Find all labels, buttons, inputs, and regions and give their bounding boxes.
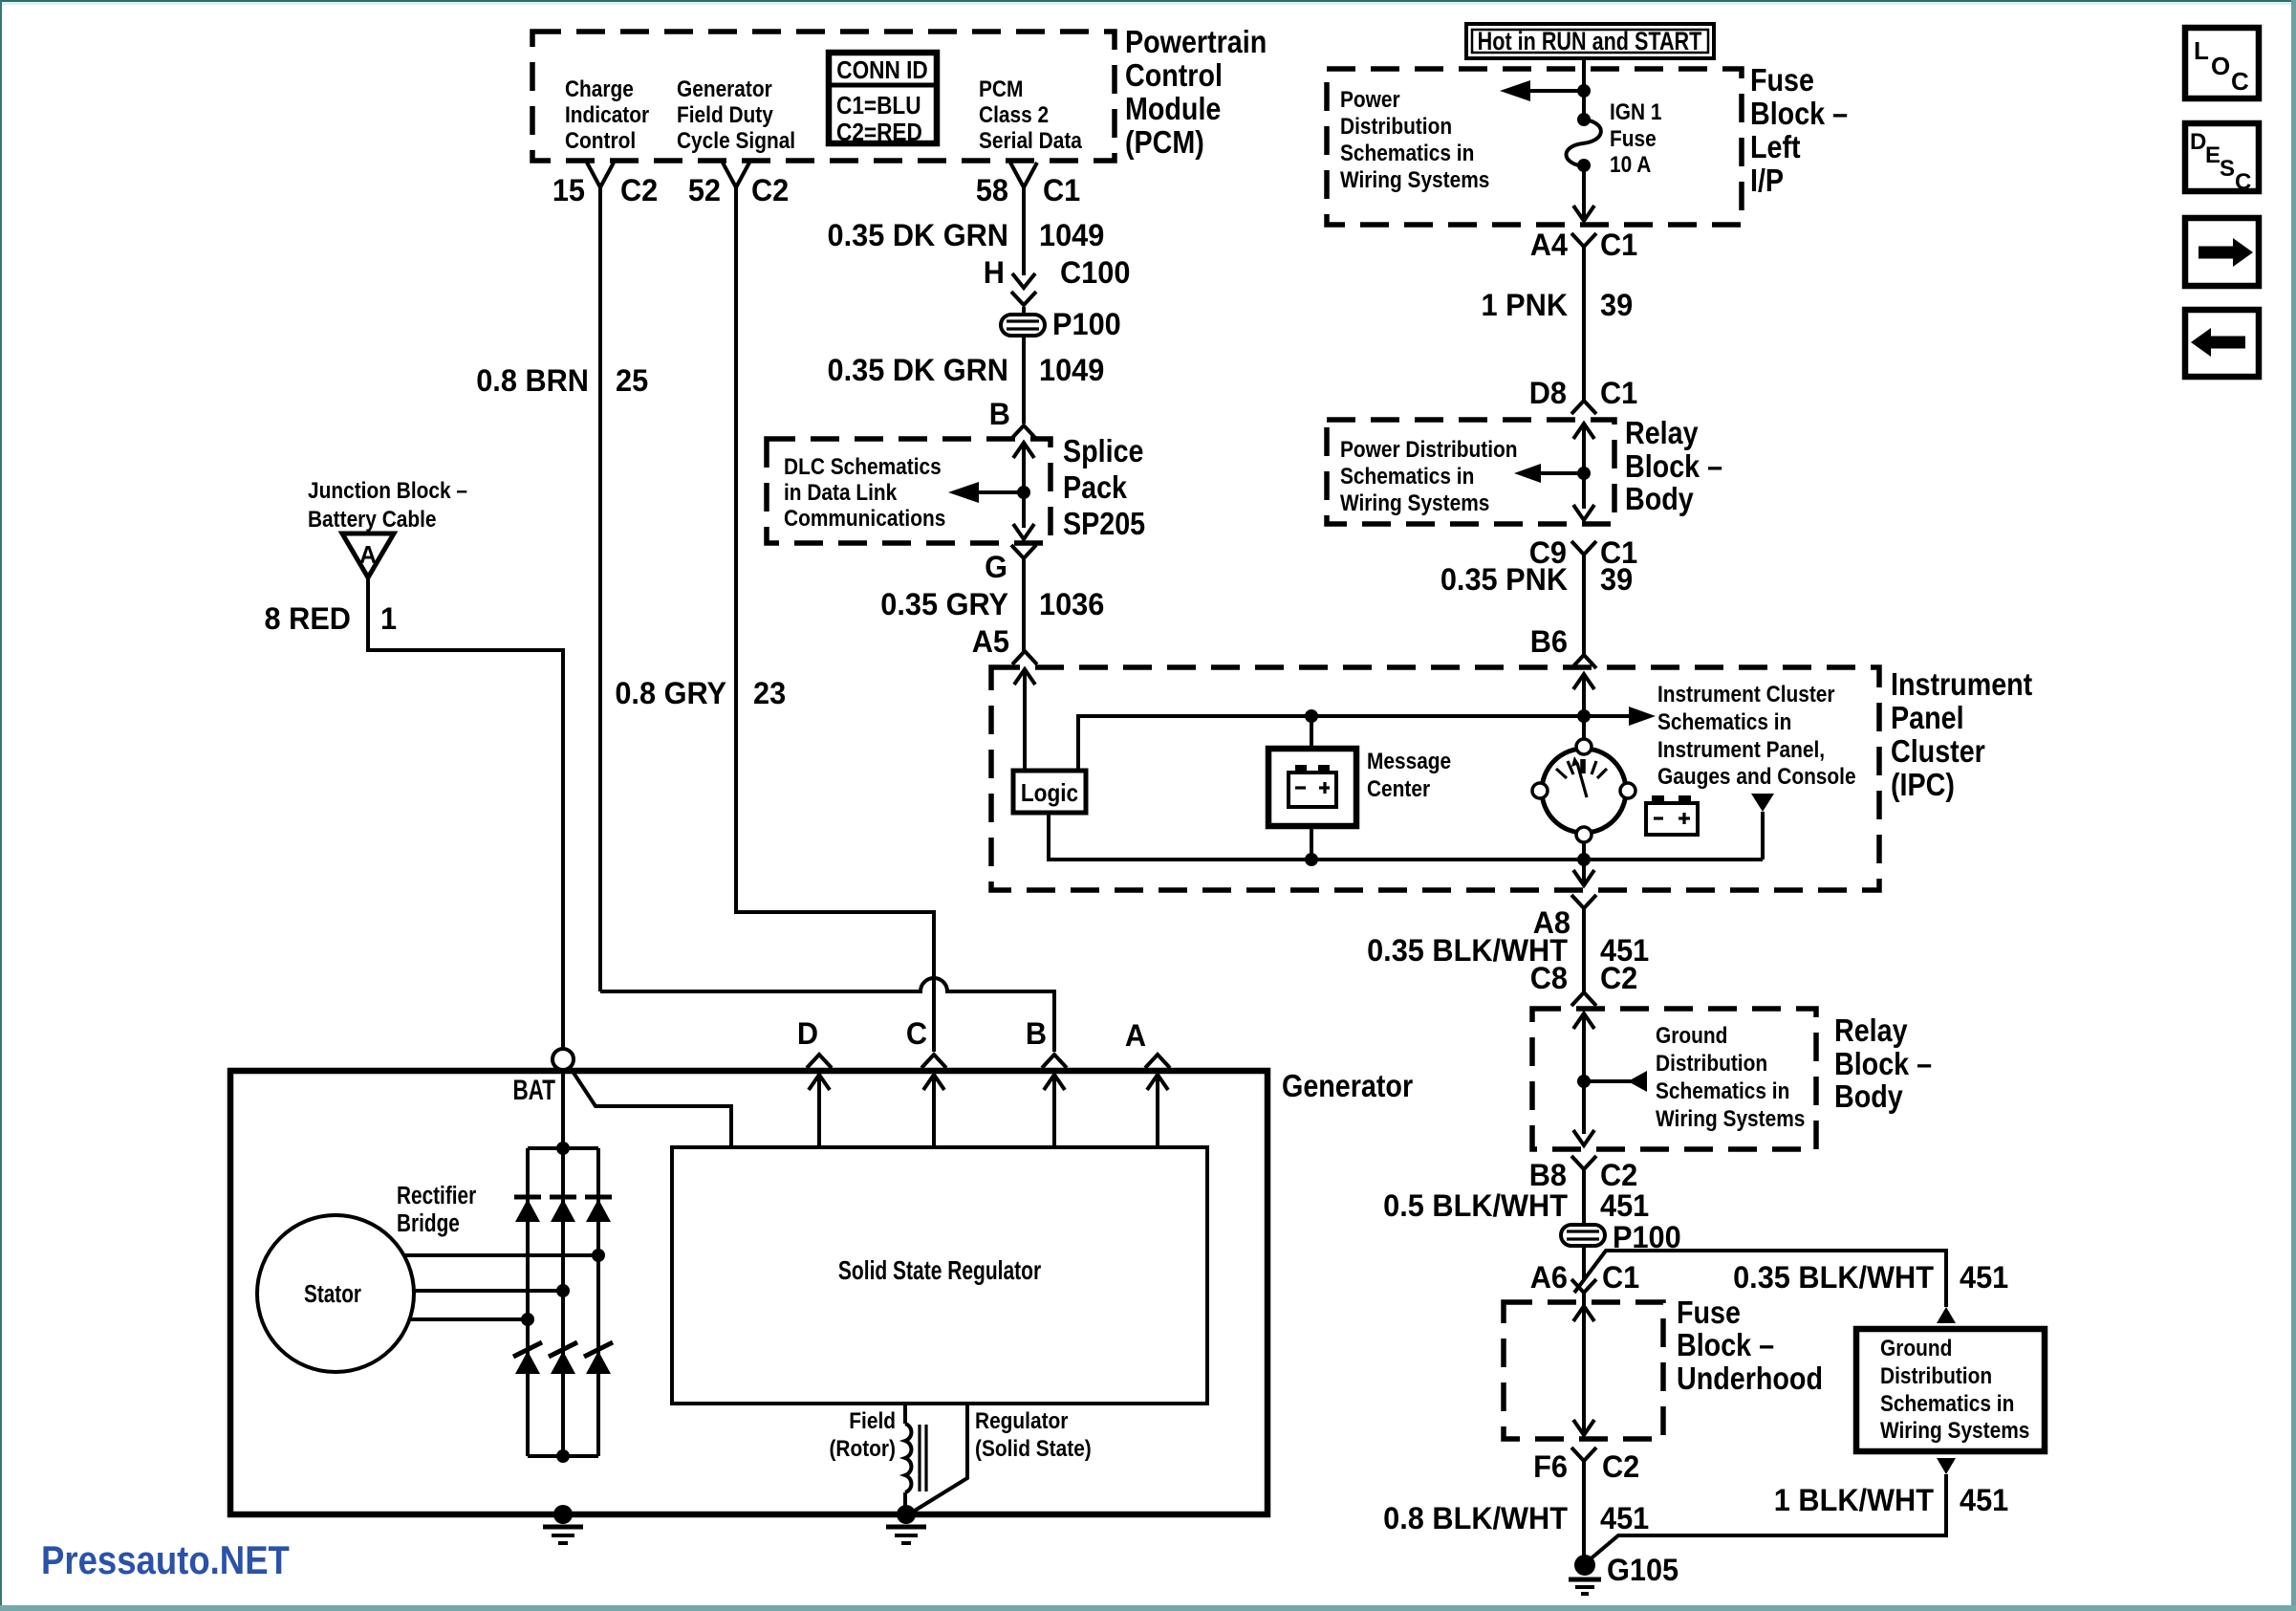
svg-text:SP205: SP205 [1063,506,1145,541]
wire terminal B to regulator with up arrow [1044,1075,1065,1147]
svg-text:Indicator: Indicator [565,102,649,128]
rectifier bridge rails [526,1148,530,1456]
IPC left input arrow (from A5) [1014,669,1035,685]
junction dots on upper wire [1305,709,1318,723]
terminal D chevron [807,1055,832,1068]
svg-text:10 A: 10 A [1610,152,1651,178]
svg-text:Power Distribution: Power Distribution [1340,437,1518,463]
svg-text:1 PNK: 1 PNK [1482,288,1569,322]
svg-text:Solid State Regulator: Solid State Regulator [838,1256,1042,1286]
svg-text:C2: C2 [751,173,789,207]
svg-text:Underhood: Underhood [1677,1361,1823,1396]
teal frame left [0,0,2,1611]
wire stator phase 2 with junction [414,1284,570,1297]
svg-text:Splice: Splice [1063,433,1144,468]
svg-text:I/P: I/P [1750,163,1784,198]
BAT terminal circle [552,1049,574,1070]
svg-text:C1: C1 [1043,173,1080,207]
splice junction dot [1017,486,1030,499]
branch wire to ground distribution box [1574,1251,1946,1307]
svg-text:H: H [984,255,1005,290]
pin C9 chevron [1571,541,1596,555]
wire stator phase 1 with junction [404,1249,605,1262]
svg-text:C: C [2231,67,2249,96]
splice left arrow [977,490,1024,494]
antenna triangle to annotation [1751,794,1774,812]
svg-text:(PCM): (PCM) [1125,124,1204,160]
svg-text:0.8 BRN: 0.8 BRN [476,363,589,398]
svg-text:0.35 PNK: 0.35 PNK [1440,562,1569,597]
svg-text:C2: C2 [1600,1158,1637,1192]
svg-text:Schematics in: Schematics in [1340,464,1474,490]
svg-text:B: B [1026,1016,1047,1051]
pass-through grommet P100 [1001,315,1045,336]
svg-text:Stator: Stator [304,1280,361,1308]
avalanche diode D6 [584,1342,613,1374]
terminal C chevron [921,1055,946,1068]
svg-text:C1: C1 [1600,228,1637,262]
wire 0.8 BRN from pin 15 to generator B [598,187,602,991]
junction dot + left arrow [1577,84,1591,98]
svg-text:Message: Message [1367,749,1451,774]
svg-text:S: S [2220,156,2235,182]
svg-text:Regulator: Regulator [975,1408,1069,1434]
svg-text:C2: C2 [1600,961,1637,995]
junction block triangle terminal A [342,533,394,577]
svg-text:IGN 1: IGN 1 [1610,99,1662,125]
svg-text:Wiring Systems: Wiring Systems [1340,167,1489,193]
svg-text:Relay: Relay [1834,1012,1908,1048]
PCM dashed box [532,32,1115,161]
svg-text:G105: G105 [1607,1553,1679,1587]
svg-text:0.35 GRY: 0.35 GRY [880,587,1008,621]
IPC bottom rail [1049,813,1763,860]
wire below P100 with branch [1582,1246,1586,1279]
wire A6 into fuse block underhood [1582,1293,1586,1306]
svg-text:Power: Power [1340,87,1400,113]
svg-text:CONN ID: CONN ID [836,57,927,85]
svg-text:39: 39 [1600,562,1633,597]
coil core bars [918,1425,921,1491]
svg-text:451: 451 [1960,1260,2008,1295]
pin 15 connector chevron [587,163,614,187]
teal frame top [0,0,2296,2]
DESC icon box [2185,123,2259,195]
svg-text:39: 39 [1600,288,1633,322]
generator box [230,1071,1267,1514]
svg-text:D: D [2190,129,2206,155]
svg-text:Control: Control [565,128,636,154]
svg-text:Ground: Ground [1880,1336,1952,1361]
svg-text:Schematics in: Schematics in [1657,709,1791,735]
svg-text:E: E [2205,142,2220,168]
svg-text:Block –: Block – [1834,1046,1932,1081]
LOC icon box [2185,28,2259,98]
svg-text:Relay: Relay [1625,415,1699,450]
wire A4 to D8 [1582,247,1586,401]
svg-text:Body: Body [1834,1078,1903,1114]
CONN ID table [829,53,937,146]
right arrow icon box [2185,218,2259,286]
svg-text:Block –: Block – [1625,448,1722,484]
wire P100 to splice pack [1022,307,1026,315]
relay2 internal arrows [1573,1013,1594,1029]
svg-text:A4: A4 [1530,228,1569,262]
svg-text:451: 451 [1600,1501,1649,1535]
terminal A chevron [1145,1055,1170,1068]
svg-text:Body: Body [1625,481,1694,516]
svg-text:Charge: Charge [565,76,634,102]
svg-text:Junction Block –: Junction Block – [308,478,467,504]
svg-text:Left: Left [1750,129,1801,164]
svg-text:Block –: Block – [1677,1327,1774,1362]
wire gauge to bottom rail [1582,841,1586,860]
svg-text:Generator: Generator [677,76,772,102]
svg-text:C2=RED: C2=RED [836,120,922,147]
gauge [1532,739,1635,842]
svg-text:Instrument Cluster: Instrument Cluster [1657,682,1835,708]
IPC output down arrow [1582,860,1586,885]
gauge wire from B6 [1573,674,1594,689]
svg-text:C1=BLU: C1=BLU [836,93,921,120]
svg-text:A6: A6 [1530,1260,1568,1295]
svg-text:C2: C2 [620,173,658,207]
svg-text:451: 451 [1960,1483,2008,1517]
wire terminal A to regulator with up arrow [1147,1075,1168,1147]
svg-text:Pack: Pack [1063,469,1128,505]
svg-text:0.35 DK GRN: 0.35 DK GRN [828,353,1008,387]
wire 58 to C100 [1022,187,1026,275]
svg-text:Wiring Systems: Wiring Systems [1656,1106,1805,1132]
svg-text:P100: P100 [1052,307,1121,341]
splice pack dashed box [767,439,1051,543]
svg-text:Serial Data: Serial Data [979,128,1082,154]
svg-text:Schematics in: Schematics in [1340,141,1474,166]
teal frame bottom [0,1605,2296,1611]
diode D1 [514,1197,541,1222]
fuse IGN 1 symbol [1582,91,1586,120]
Fuse Block - Left I/P dashed box [1327,69,1742,225]
wire into fuse block [1582,58,1586,91]
svg-text:C2: C2 [1602,1449,1639,1484]
pin A4 chevron [1571,233,1596,247]
diode D3 [585,1197,612,1222]
svg-text:25: 25 [616,363,648,398]
wire splice to IPC [1022,558,1026,651]
svg-text:Field Duty: Field Duty [677,102,773,128]
svg-text:Module: Module [1125,91,1221,126]
svg-text:Gauges and Console: Gauges and Console [1657,764,1856,790]
diode D2 [550,1197,576,1222]
svg-text:Generator: Generator [1282,1068,1413,1103]
left arrow icon box [2185,310,2259,377]
avalanche diode D5 [549,1342,577,1374]
svg-text:in Data Link: in Data Link [784,480,898,506]
wire hop over C wire then to B terminal [600,978,1054,1052]
svg-text:Schematics in: Schematics in [1880,1391,2014,1417]
svg-text:451: 451 [1600,1188,1649,1223]
ground at field coil [886,1505,926,1543]
svg-text:O: O [2211,52,2230,80]
svg-text:Distribution: Distribution [1656,1051,1767,1077]
pin G chevron [1011,545,1036,558]
Logic box [1013,771,1086,813]
svg-text:A: A [359,542,377,570]
svg-text:Rectifier: Rectifier [397,1182,476,1209]
ground at rectifier rail [543,1505,583,1543]
svg-text:PCM: PCM [979,76,1023,102]
svg-text:8 RED: 8 RED [265,601,351,636]
wire C9 to B6 [1582,555,1586,655]
svg-text:G: G [985,550,1007,584]
svg-text:23: 23 [753,676,786,710]
svg-text:Battery Cable: Battery Cable [308,507,437,533]
svg-text:A5: A5 [972,624,1009,659]
svg-text:F6: F6 [1533,1449,1568,1484]
svg-text:Class 2: Class 2 [979,102,1049,128]
Message Center box [1268,749,1356,826]
svg-text:0.5 BLK/WHT: 0.5 BLK/WHT [1383,1188,1568,1223]
svg-text:Panel: Panel [1891,700,1964,735]
svg-text:B6: B6 [1530,624,1568,659]
svg-text:0.8 GRY: 0.8 GRY [615,676,726,710]
wire from ground box to G105 [1588,1474,1946,1561]
svg-text:Instrument Panel,: Instrument Panel, [1657,737,1825,763]
svg-text:Ground: Ground [1656,1023,1727,1049]
stator [257,1215,414,1372]
svg-text:Cycle Signal: Cycle Signal [677,128,795,154]
wire terminal C to regulator with up arrow [923,1075,944,1147]
down triangle below ground distribution box [1937,1458,1956,1474]
svg-text:Wiring Systems: Wiring Systems [1340,490,1489,516]
svg-text:Fuse: Fuse [1677,1295,1741,1330]
svg-text:Distribution: Distribution [1880,1363,1992,1389]
ground G105 [1569,1555,1601,1594]
svg-text:C: C [2235,169,2251,195]
svg-text:1036: 1036 [1039,587,1104,621]
splice internal down arrow [1013,524,1034,539]
svg-text:A: A [1125,1018,1146,1053]
svg-text:B8: B8 [1529,1158,1567,1192]
pin B8 chevron [1571,1156,1596,1169]
svg-text:Logic: Logic [1021,780,1078,808]
svg-text:Bridge: Bridge [397,1209,460,1237]
svg-text:Block –: Block – [1750,96,1848,131]
wire + down arrow to fuse block bottom [1582,165,1586,221]
svg-text:Pressauto.NET: Pressauto.NET [41,1538,290,1583]
svg-text:58: 58 [976,173,1008,207]
wire terminal D to regulator with up arrow [809,1075,830,1147]
svg-text:Fuse: Fuse [1750,62,1814,98]
wire A8 to C8 [1582,908,1586,992]
wire stator phase 3 with junction [409,1313,534,1326]
svg-text:0.35 DK GRN: 0.35 DK GRN [828,218,1008,252]
svg-text:C100: C100 [1060,255,1130,290]
pin 58 connector chevron [1010,163,1037,187]
splice internal up arrow [1013,443,1034,458]
svg-text:(IPC): (IPC) [1891,767,1955,802]
wire logic up right to arrow [1078,716,1641,771]
field rotor coil [903,1404,907,1424]
svg-text:D: D [797,1016,818,1051]
svg-text:Hot in RUN and START: Hot in RUN and START [1478,28,1702,56]
svg-text:DLC Schematics: DLC Schematics [784,454,942,480]
svg-text:Wiring Systems: Wiring Systems [1880,1418,2029,1444]
svg-text:B: B [989,397,1010,431]
pin 52 connector chevron [723,163,749,187]
svg-text:(Rotor): (Rotor) [829,1436,896,1462]
avalanche diode D4 [513,1342,542,1374]
wire 0.8 GRY from pin 52 to generator C [736,187,934,1052]
svg-text:Cluster: Cluster [1891,733,1985,769]
svg-text:Schematics in: Schematics in [1656,1078,1789,1104]
Relay Block - Body dashed box (power) [1327,420,1614,524]
svg-text:Powertrain: Powertrain [1125,24,1267,59]
svg-text:52: 52 [688,173,721,207]
wire 8 RED from junction block to BAT [368,577,563,1049]
BAT internal wiring [561,1070,565,1148]
svg-text:Communications: Communications [784,506,945,532]
pass-through grommet P100 [1561,1225,1605,1246]
svg-text:1: 1 [380,601,397,636]
svg-text:C: C [906,1016,927,1051]
regulator ground wire [910,1404,967,1513]
svg-text:Instrument: Instrument [1891,666,2032,702]
wire B8 to P100 [1582,1169,1586,1225]
svg-text:1 BLK/WHT: 1 BLK/WHT [1774,1483,1934,1517]
svg-text:1049: 1049 [1039,218,1104,252]
pin F6 chevron [1571,1448,1596,1461]
svg-text:C1: C1 [1602,1260,1639,1295]
svg-text:0.35 BLK/WHT: 0.35 BLK/WHT [1733,1260,1934,1295]
Hot in RUN and START box [1466,24,1714,58]
small battery symbol [1646,795,1698,835]
Solid State Regulator box [672,1147,1207,1404]
battery symbol in message center [1289,765,1336,807]
svg-text:C1: C1 [1600,376,1637,410]
wire F6 to ground [1582,1461,1586,1558]
svg-text:1049: 1049 [1039,353,1104,387]
relay internal arrows [1573,424,1594,439]
svg-text:Center: Center [1367,776,1430,802]
terminal B chevron [1042,1055,1067,1068]
svg-text:0.8 BLK/WHT: 0.8 BLK/WHT [1383,1501,1568,1535]
svg-text:Field: Field [849,1408,896,1434]
svg-text:(Solid State): (Solid State) [975,1436,1092,1462]
svg-text:L: L [2194,36,2209,65]
svg-text:Control: Control [1125,57,1223,93]
svg-text:C8: C8 [1530,961,1568,995]
svg-text:BAT: BAT [512,1074,555,1106]
svg-text:15: 15 [552,173,585,207]
IPC dashed box [991,667,1879,890]
svg-text:Fuse: Fuse [1610,126,1657,152]
teal frame right [2291,0,2296,1611]
svg-text:Distribution: Distribution [1340,114,1452,140]
svg-text:D8: D8 [1529,376,1567,410]
